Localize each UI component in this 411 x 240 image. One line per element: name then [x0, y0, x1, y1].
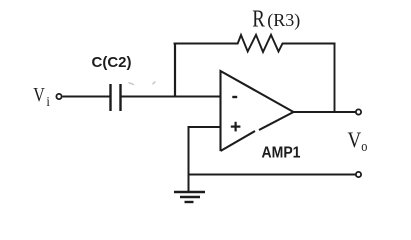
svg-text:i: i [46, 93, 50, 109]
svg-text:(R3): (R3) [267, 10, 300, 31]
svg-text:C(C2): C(C2) [92, 54, 132, 71]
svg-text:V: V [348, 129, 362, 153]
svg-text:R: R [252, 5, 265, 32]
svg-text:AMP1: AMP1 [262, 145, 301, 162]
svg-text:o: o [361, 138, 367, 154]
svg-text:V: V [33, 83, 45, 105]
